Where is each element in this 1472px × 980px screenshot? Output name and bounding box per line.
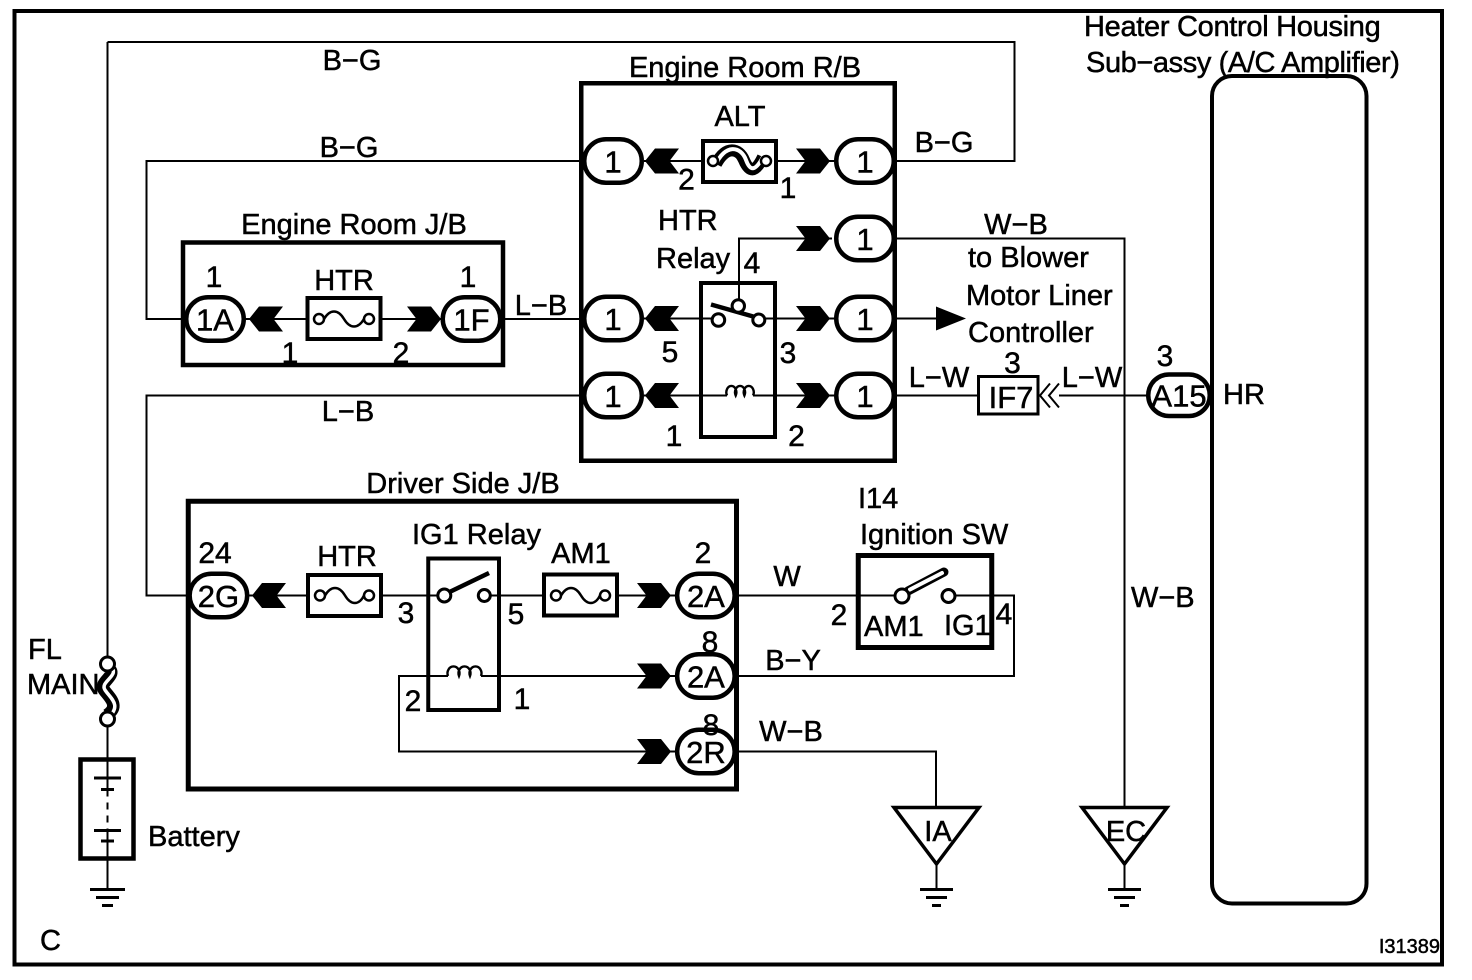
svg-text:Battery: Battery xyxy=(148,821,240,853)
svg-text:2: 2 xyxy=(788,420,805,453)
connector 1 oval R/B row1 right xyxy=(836,139,894,183)
wire HTR fuse to IG1 relay contact xyxy=(379,595,437,597)
ignition switch I14 box xyxy=(858,556,992,648)
svg-text:to Blower: to Blower xyxy=(968,242,1089,274)
connector A15 oval xyxy=(1148,374,1210,416)
svg-text:Sub−assy (A/C Amplifier): Sub−assy (A/C Amplifier) xyxy=(1086,47,1400,79)
svg-text:HTR: HTR xyxy=(658,205,718,237)
wire IG1 relay coil to 2A row xyxy=(481,675,676,677)
svg-text:AM1: AM1 xyxy=(864,611,924,643)
svg-text:IG1: IG1 xyxy=(944,610,991,642)
svg-text:L−W: L−W xyxy=(909,362,970,394)
svg-text:W−B: W−B xyxy=(1131,582,1195,614)
ground IA triangle xyxy=(894,808,979,906)
wire W-B from HTR relay pin 4 to ground EC xyxy=(896,239,1125,808)
AM1 fuse xyxy=(544,575,617,616)
wire relay contact to R/B row3 right oval xyxy=(763,318,836,320)
arrow into R/B row3 right xyxy=(796,306,830,331)
connector 1 oval R/B row4 right xyxy=(836,374,894,418)
heater control housing HR outline xyxy=(1212,76,1367,904)
junction connector IF7 xyxy=(979,377,1039,415)
svg-text:2: 2 xyxy=(695,537,712,570)
svg-text:IA: IA xyxy=(924,816,952,848)
arrow into R/B row1 right xyxy=(796,149,830,174)
wire ALT fuse to R/B row1 right oval xyxy=(774,160,836,162)
svg-text:2: 2 xyxy=(393,337,410,370)
chevrons at IF7 xyxy=(1040,384,1059,408)
ground EC triangle xyxy=(1082,808,1167,906)
svg-text:HTR: HTR xyxy=(314,265,374,297)
wire IG1 relay coil pin 2 down to 2R row xyxy=(399,676,676,752)
svg-text:8: 8 xyxy=(702,626,719,659)
svg-text:B−G: B−G xyxy=(323,45,382,77)
svg-text:B−G: B−G xyxy=(915,127,974,159)
svg-text:EC: EC xyxy=(1106,816,1146,848)
connector 1 oval R/B row4 left xyxy=(584,374,642,418)
wire L-B from Engine Room R/B down to Driver Side J/B 2G xyxy=(147,396,586,596)
wire relay coil to R/B row4 right oval xyxy=(753,395,836,397)
svg-text:1: 1 xyxy=(282,337,299,370)
svg-text:IF7: IF7 xyxy=(989,380,1034,415)
svg-text:Ignition SW: Ignition SW xyxy=(860,519,1009,551)
svg-text:MAIN: MAIN xyxy=(27,669,100,701)
svg-text:W−B: W−B xyxy=(759,716,823,748)
svg-text:B−G: B−G xyxy=(320,132,379,164)
connector 1F oval xyxy=(443,297,501,341)
svg-text:4: 4 xyxy=(744,247,761,280)
svg-text:1: 1 xyxy=(604,302,621,337)
svg-text:I14: I14 xyxy=(858,483,898,515)
connector 1 oval R/B row2 right xyxy=(836,217,894,261)
svg-text:1: 1 xyxy=(856,302,873,337)
svg-text:1: 1 xyxy=(780,172,797,205)
svg-text:2: 2 xyxy=(678,164,695,197)
svg-text:Heater Control Housing: Heater Control Housing xyxy=(1084,11,1380,43)
wire R/B row3 left oval to relay contact xyxy=(644,318,716,320)
svg-text:A15: A15 xyxy=(1151,379,1206,414)
svg-text:L−B: L−B xyxy=(515,290,567,322)
arrow into R/B row1 left xyxy=(645,149,679,174)
IG1 relay switch xyxy=(438,573,491,602)
svg-text:IG1 Relay: IG1 Relay xyxy=(412,519,541,551)
svg-text:2A: 2A xyxy=(687,579,725,614)
ALT fuse xyxy=(703,141,776,182)
svg-text:2: 2 xyxy=(831,599,848,632)
svg-text:8: 8 xyxy=(703,709,720,742)
svg-text:Engine Room J/B: Engine Room J/B xyxy=(241,209,467,241)
svg-text:3: 3 xyxy=(780,337,797,370)
connector 2A oval row2 xyxy=(677,654,735,698)
svg-text:Driver Side J/B: Driver Side J/B xyxy=(366,468,559,500)
wire R/B row1 left oval to ALT fuse xyxy=(644,160,705,162)
arrow into 2A row2 xyxy=(637,664,671,689)
wire 1A to HTR fuse xyxy=(245,318,310,320)
svg-text:ALT: ALT xyxy=(714,101,765,133)
arrow into 2R xyxy=(637,739,671,764)
svg-text:HR: HR xyxy=(1223,379,1265,411)
svg-text:W: W xyxy=(773,561,801,593)
battery xyxy=(81,726,134,888)
wire W-B from 2R to ground IA xyxy=(736,752,936,808)
wire R/B row4 left oval to relay coil xyxy=(644,395,727,397)
HTR fuse (Engine Room J/B) xyxy=(308,298,381,339)
svg-text:1A: 1A xyxy=(196,303,234,338)
wire HTR fuse to 1F xyxy=(379,318,442,320)
IG1 relay coil xyxy=(447,666,481,676)
svg-text:1F: 1F xyxy=(453,303,489,338)
svg-text:I31389: I31389 xyxy=(1379,936,1440,958)
wire 2G to HTR fuse xyxy=(247,595,312,597)
svg-text:L−B: L−B xyxy=(322,396,374,428)
HTR relay box xyxy=(701,283,775,437)
ignition switch contacts and lever xyxy=(895,572,955,603)
svg-text:5: 5 xyxy=(508,598,525,631)
wire HTR relay pin 4 riser xyxy=(739,239,832,302)
arrow into 2A row1 xyxy=(637,583,671,608)
arrow to blower motor liner controller xyxy=(936,307,966,331)
wire B-G from Engine Room R/B to Engine Room J/B 1A xyxy=(147,161,585,319)
Engine Room J/B junction block box xyxy=(183,243,503,366)
svg-text:1: 1 xyxy=(604,145,621,180)
svg-text:1: 1 xyxy=(514,683,531,716)
wire B-Y from ignition switch IG1 pin 4 to 2A xyxy=(736,596,1014,677)
svg-text:3: 3 xyxy=(1157,340,1174,373)
Engine Room R/B junction block box xyxy=(581,83,895,461)
svg-text:Engine Room R/B: Engine Room R/B xyxy=(629,52,861,84)
HTR fuse (Driver Side J/B) xyxy=(308,575,381,616)
fusible link FL MAIN xyxy=(101,657,115,726)
svg-text:5: 5 xyxy=(662,336,679,369)
arrow into 1F xyxy=(407,307,441,332)
svg-text:HTR: HTR xyxy=(317,541,377,573)
svg-text:2A: 2A xyxy=(687,660,725,695)
svg-text:AM1: AM1 xyxy=(551,538,611,570)
svg-text:Motor Liner: Motor Liner xyxy=(966,280,1113,312)
arrow into R/B row2 right xyxy=(796,226,830,251)
Driver Side J/B junction block box xyxy=(188,501,736,789)
svg-text:Relay: Relay xyxy=(656,243,731,275)
svg-text:Controller: Controller xyxy=(968,317,1094,349)
HTR relay switch xyxy=(711,300,765,327)
svg-text:W−B: W−B xyxy=(984,209,1048,241)
svg-text:1: 1 xyxy=(206,261,223,294)
wire IG1 relay contact to AM1 fuse xyxy=(490,595,550,597)
svg-text:3: 3 xyxy=(398,597,415,630)
connector 2R oval xyxy=(677,730,735,774)
svg-text:1: 1 xyxy=(856,379,873,414)
wire battery feed vertical B-G xyxy=(107,42,109,657)
connector 2A oval row1 xyxy=(677,574,735,618)
arrow into R/B row4 left xyxy=(645,383,679,408)
svg-text:1: 1 xyxy=(856,222,873,257)
connector 1 oval R/B row1 left xyxy=(584,139,642,183)
svg-text:C: C xyxy=(40,925,61,957)
svg-text:1: 1 xyxy=(666,420,683,453)
wire W from 2A to ignition switch AM1 contact xyxy=(736,595,895,597)
connector 1 oval R/B row3 right xyxy=(836,297,894,341)
svg-text:2G: 2G xyxy=(198,579,239,614)
connector 1 oval R/B row3 left xyxy=(584,297,642,341)
arrow into R/B row3 left xyxy=(645,306,679,331)
wire L-W from Engine Room R/B to IF7 xyxy=(896,395,978,397)
wire AM1 fuse to 2A xyxy=(611,595,676,597)
svg-text:2: 2 xyxy=(405,685,422,718)
connector 1A oval xyxy=(186,297,244,341)
wire L-B from 1F to Engine Room R/B xyxy=(502,318,585,320)
wire B-G top run from battery feed to Engine Room R/B connector 1 xyxy=(108,42,1015,161)
arrow into 1A xyxy=(249,307,283,332)
svg-text:1: 1 xyxy=(856,145,873,180)
svg-text:L−W: L−W xyxy=(1062,362,1123,394)
wire to blower motor liner controller xyxy=(896,318,936,320)
svg-text:1: 1 xyxy=(460,261,477,294)
svg-text:B−Y: B−Y xyxy=(765,645,821,677)
svg-text:1: 1 xyxy=(604,379,621,414)
svg-text:4: 4 xyxy=(996,598,1013,631)
ground below battery xyxy=(90,890,125,906)
wire L-W from IF7 to A15 xyxy=(1059,395,1147,397)
arrow into R/B row4 right xyxy=(796,383,830,408)
svg-text:FL: FL xyxy=(28,634,62,666)
arrow into 2G xyxy=(252,583,286,608)
connector 2G oval xyxy=(190,574,248,618)
HTR relay coil xyxy=(726,386,753,396)
IG1 relay box xyxy=(428,559,499,711)
svg-text:24: 24 xyxy=(198,537,231,570)
